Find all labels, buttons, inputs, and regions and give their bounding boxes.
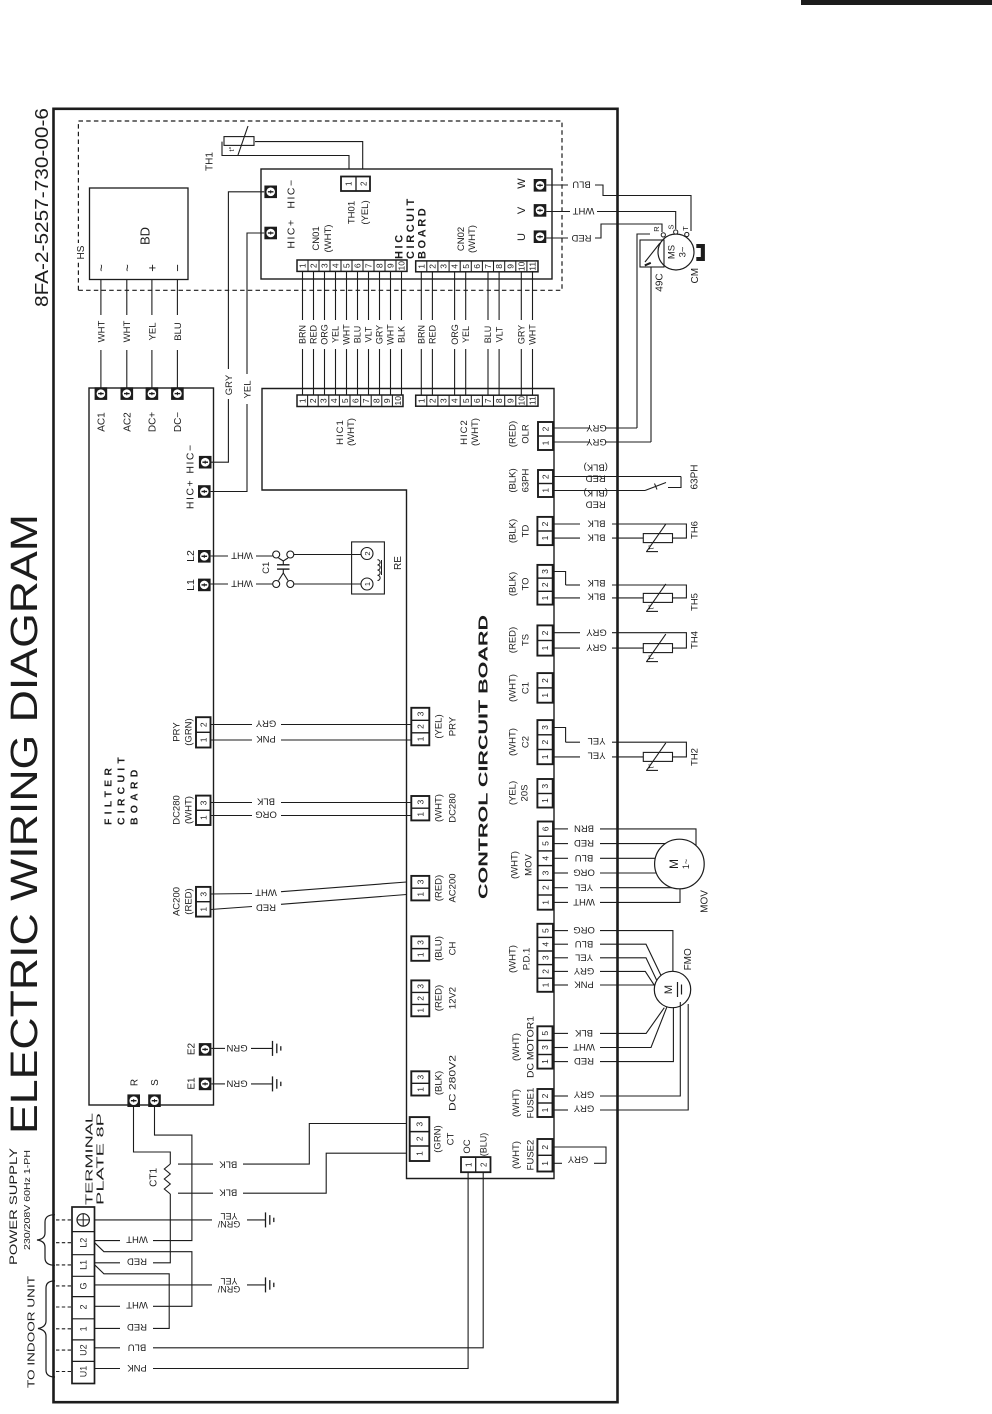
- svg-text:(RED): (RED): [433, 875, 444, 901]
- wire TH1 pin2: [255, 142, 363, 178]
- svg-text:ORG: ORG: [450, 324, 460, 345]
- wire MOV-5 RED: [554, 843, 568, 845]
- svg-text:6: 6: [472, 398, 482, 403]
- svg-text:2: 2: [540, 521, 550, 526]
- svg-text:1: 1: [541, 488, 551, 493]
- svg-text:BLK: BLK: [397, 326, 407, 343]
- terminal plate 8P box: [72, 1207, 95, 1384]
- connector DC MOTOR1 (WHT) 1-3-5: [537, 1026, 552, 1068]
- wire E1 GRN: [212, 1083, 226, 1085]
- thermistor TH4 with wires: [554, 632, 580, 634]
- svg-text:(BLK): (BLK): [433, 1071, 444, 1095]
- svg-text:4: 4: [329, 398, 339, 403]
- svg-text:BLK: BLK: [587, 590, 606, 601]
- connector AC200 (RED) filter: [196, 887, 211, 917]
- svg-text:1: 1: [345, 181, 354, 186]
- svg-text:6: 6: [350, 398, 360, 403]
- svg-text:YEL: YEL: [147, 323, 158, 341]
- svg-text:BRN: BRN: [574, 822, 594, 833]
- svg-text:E2: E2: [187, 1042, 198, 1055]
- wire DC280 ORG between boards: [211, 815, 253, 817]
- svg-text:(GRN): (GRN): [432, 1125, 443, 1152]
- ground E2: [272, 1041, 274, 1056]
- HS label: [73, 243, 88, 262]
- svg-text:(WHT): (WHT): [511, 1141, 522, 1169]
- svg-text:1: 1: [540, 900, 550, 905]
- svg-text:BLK: BLK: [256, 796, 275, 807]
- svg-text:S: S: [150, 1079, 161, 1086]
- svg-text:~: ~: [120, 264, 135, 272]
- svg-text:TH01: TH01: [346, 201, 357, 224]
- terminal E2: [199, 1043, 212, 1056]
- svg-text:PNK: PNK: [127, 1362, 147, 1373]
- svg-text:1: 1: [416, 264, 426, 269]
- svg-text:PRY: PRY: [171, 722, 182, 742]
- svg-text:P.D.1: P.D.1: [521, 948, 532, 971]
- svg-text:GRY: GRY: [375, 325, 385, 344]
- wire PRY GRY between boards: [211, 724, 253, 726]
- svg-text:RED: RED: [574, 837, 594, 848]
- ground E1: [272, 1076, 274, 1091]
- svg-text:8: 8: [375, 263, 385, 268]
- svg-text:L1: L1: [79, 1260, 89, 1270]
- svg-text:YEL: YEL: [588, 735, 606, 746]
- terminal AC1: [95, 387, 108, 400]
- compressor motor CM circle: [658, 234, 694, 270]
- pressure switch 63PH contact: [645, 483, 666, 491]
- thermistor TH2 with wires: [566, 741, 580, 743]
- svg-text:1: 1: [540, 798, 550, 803]
- connector OLR (RED) 1-2: [538, 422, 553, 450]
- connector CT (GRN): [410, 1117, 430, 1161]
- connector HIC2 pin strip 1-11: [416, 395, 538, 406]
- svg-text:GRY: GRY: [255, 718, 276, 729]
- wire CN01-6 BLU: [357, 349, 359, 395]
- wire TO-3 jog: [554, 572, 566, 586]
- fan motor FMO circle: [654, 971, 690, 1007]
- svg-text:2: 2: [540, 739, 550, 744]
- svg-text:+: +: [145, 264, 160, 272]
- svg-text:L2: L2: [185, 550, 197, 562]
- wire CN02-4 ORG: [454, 349, 456, 395]
- svg-text:GRY: GRY: [586, 422, 607, 433]
- terminal L1: [198, 579, 211, 592]
- connector CN02 pin strip 1-11: [416, 261, 538, 272]
- svg-text:3: 3: [415, 1075, 425, 1080]
- svg-text:1: 1: [540, 982, 550, 987]
- svg-text:63PH: 63PH: [690, 464, 701, 489]
- wire 49C to R: [637, 234, 650, 428]
- svg-text:t°: t°: [647, 604, 656, 609]
- svg-text:C2: C2: [520, 736, 531, 748]
- current transformer CT1 coil: [164, 1164, 170, 1194]
- svg-text:1: 1: [540, 754, 550, 759]
- connector TS (RED) 1-2: [537, 625, 552, 655]
- svg-text:CIRCUIT: CIRCUIT: [405, 196, 417, 259]
- svg-text:YEL: YEL: [575, 881, 593, 892]
- svg-text:2: 2: [415, 996, 425, 1001]
- svg-text:(YEL): (YEL): [433, 714, 444, 738]
- connector HIC1 pin strip 1-10: [297, 395, 403, 407]
- wire MOV-4 BLU: [554, 857, 568, 859]
- svg-text:GRY: GRY: [567, 1154, 588, 1165]
- wire DCM1-5 BLK: [554, 1032, 568, 1034]
- svg-text:9: 9: [382, 398, 392, 403]
- RE contact 2: [361, 548, 373, 560]
- svg-text:WHT: WHT: [231, 578, 253, 589]
- wire PRY PNK between boards: [211, 739, 253, 741]
- svg-text:7: 7: [483, 264, 493, 269]
- wire L2 jog to terminal 2 (WHT): [95, 1243, 192, 1307]
- wire CN01-4 YEL: [335, 349, 337, 395]
- svg-text:(RED): (RED): [507, 421, 518, 447]
- wire 63PH-2: [554, 476, 681, 478]
- svg-text:BLK: BLK: [587, 577, 606, 588]
- svg-text:3: 3: [540, 784, 550, 789]
- wire FUSE1-2 GRY: [554, 1095, 568, 1097]
- svg-text:1: 1: [540, 1161, 550, 1166]
- svg-text:−: −: [170, 264, 185, 272]
- wire CN01-5 WHT: [346, 349, 348, 395]
- svg-text:9: 9: [505, 264, 515, 269]
- svg-text:9: 9: [386, 263, 396, 268]
- wire W to compressor T (BLU): [546, 184, 568, 186]
- wire CN02-2 RED: [431, 349, 433, 395]
- svg-text:BLK: BLK: [574, 1027, 593, 1038]
- svg-text:2: 2: [540, 582, 550, 587]
- svg-text:8: 8: [494, 264, 504, 269]
- svg-text:G: G: [79, 1282, 89, 1289]
- svg-text:PLATE 8P: PLATE 8P: [96, 1112, 107, 1205]
- wire CN02-5 YEL: [465, 349, 467, 395]
- wire PD1-4 BLU: [554, 943, 568, 945]
- svg-text:4: 4: [540, 942, 550, 947]
- svg-text:TERMINAL: TERMINAL: [85, 1112, 96, 1205]
- wire CN01-7 VLT: [368, 349, 370, 395]
- svg-text:L2: L2: [79, 1238, 89, 1248]
- svg-text:7: 7: [361, 398, 371, 403]
- svg-text:2: 2: [540, 969, 550, 974]
- svg-text:HIC+: HIC+: [184, 479, 196, 509]
- wire PD1-1 PNK: [554, 984, 568, 986]
- terminal R: [127, 1094, 140, 1107]
- brace POWER SUPPLY: [37, 1215, 55, 1266]
- wire AC200 RED between boards: [211, 907, 253, 910]
- wire R to CT1 primary: [134, 1107, 171, 1164]
- svg-text:1: 1: [540, 1107, 550, 1112]
- svg-text:RE: RE: [393, 556, 404, 570]
- svg-text:YEL: YEL: [242, 381, 253, 399]
- connector CH (BLU): [411, 936, 429, 961]
- svg-text:OLR: OLR: [520, 424, 531, 444]
- svg-text:R: R: [652, 226, 661, 232]
- wire C1 to RE 2: [294, 554, 362, 556]
- svg-text:1: 1: [415, 952, 425, 957]
- svg-text:2: 2: [198, 722, 208, 727]
- svg-text:6: 6: [540, 826, 550, 831]
- HIC circuit board box: [261, 169, 552, 279]
- svg-text:(RED): (RED): [183, 888, 194, 914]
- svg-text:RED: RED: [127, 1256, 147, 1267]
- svg-text:YEL: YEL: [220, 1211, 237, 1221]
- svg-text:(WHT): (WHT): [511, 1089, 522, 1117]
- svg-text:3: 3: [415, 984, 425, 989]
- svg-text:(WHT): (WHT): [346, 418, 357, 446]
- svg-text:3: 3: [198, 892, 208, 897]
- svg-text:BLK: BLK: [587, 532, 606, 543]
- svg-text:3: 3: [415, 879, 425, 884]
- wire U to compressor R (RED): [546, 237, 568, 239]
- compressor terminal S: [674, 230, 678, 234]
- page header black bar: [801, 0, 992, 5]
- svg-text:3: 3: [540, 569, 550, 574]
- svg-text:C1: C1: [520, 682, 531, 694]
- svg-text:WHT: WHT: [573, 1041, 595, 1052]
- svg-text:ORG: ORG: [255, 809, 277, 820]
- svg-text:10: 10: [516, 396, 526, 406]
- svg-text:1: 1: [415, 1087, 425, 1092]
- svg-text:(WHT): (WHT): [507, 945, 518, 973]
- wire CN01-9 WHT: [390, 349, 392, 395]
- svg-text:t°: t°: [227, 146, 236, 151]
- svg-text:TH2: TH2: [689, 748, 700, 766]
- wire L1 WHT to C1: [211, 583, 228, 585]
- svg-text:GRY: GRY: [573, 1089, 594, 1100]
- svg-text:1: 1: [540, 535, 550, 540]
- svg-text:3: 3: [415, 799, 425, 804]
- svg-text:POWER SUPPLY: POWER SUPPLY: [8, 1147, 20, 1265]
- svg-text:E1: E1: [187, 1077, 198, 1090]
- svg-text:WHT: WHT: [528, 324, 538, 345]
- svg-text:RED: RED: [586, 473, 606, 484]
- svg-text:(YEL): (YEL): [360, 200, 371, 224]
- wire TH1 pin1: [222, 142, 349, 178]
- svg-text:1~: 1~: [681, 859, 691, 869]
- svg-text:ELECTRIC WIRING DIAGRAM: ELECTRIC WIRING DIAGRAM: [4, 514, 46, 1134]
- svg-text:CH: CH: [447, 942, 458, 956]
- svg-text:(WHT): (WHT): [507, 728, 518, 756]
- svg-text:4: 4: [450, 398, 460, 403]
- svg-text:1: 1: [416, 398, 426, 403]
- svg-text:(GRN): (GRN): [183, 718, 194, 745]
- svg-text:3: 3: [540, 1045, 550, 1050]
- svg-text:3: 3: [540, 870, 550, 875]
- svg-text:PNK: PNK: [574, 979, 594, 990]
- svg-text:M: M: [663, 985, 675, 994]
- svg-text:BRN: BRN: [417, 325, 427, 344]
- svg-text:BOARD: BOARD: [129, 766, 141, 826]
- thermistor TH6 with wires: [554, 523, 580, 525]
- svg-text:3: 3: [198, 800, 208, 805]
- svg-text:8: 8: [372, 398, 382, 403]
- svg-text:1: 1: [198, 737, 208, 742]
- svg-text:WHT: WHT: [126, 1233, 148, 1244]
- wire earth GRN/YEL to ground: [95, 1219, 212, 1221]
- svg-text:(BLK): (BLK): [507, 572, 518, 596]
- svg-text:HIC−: HIC−: [184, 443, 196, 473]
- svg-text:(BLK): (BLK): [584, 461, 608, 472]
- svg-text:2: 2: [79, 1304, 89, 1309]
- capacitor C1 contacts: [273, 551, 280, 558]
- wire CT1 primary to L1 (RED): [153, 1194, 170, 1263]
- wire OLR-2 GRY: [554, 427, 590, 429]
- svg-text:1: 1: [298, 263, 308, 268]
- svg-text:5: 5: [540, 1031, 550, 1036]
- svg-text:2: 2: [480, 1162, 489, 1167]
- wire C2-3 jog: [554, 728, 566, 743]
- terminal plate cell G: [72, 1275, 95, 1277]
- svg-text:8: 8: [494, 398, 504, 403]
- svg-text:R: R: [129, 1079, 140, 1086]
- svg-text:7: 7: [364, 263, 374, 268]
- connector TH01 (YEL): [341, 177, 370, 192]
- svg-text:C1: C1: [261, 562, 272, 574]
- svg-text:T: T: [681, 226, 690, 231]
- wire BD~ to AC1 (WHT): [100, 350, 102, 394]
- svg-text:1: 1: [363, 582, 372, 586]
- svg-text:6: 6: [353, 263, 363, 268]
- svg-text:BLK: BLK: [587, 518, 606, 529]
- svg-text:10: 10: [393, 396, 403, 406]
- svg-text:AC1: AC1: [97, 412, 108, 432]
- svg-text:MS: MS: [666, 245, 677, 259]
- thermistor TH1: [224, 137, 254, 146]
- svg-text:PNK: PNK: [256, 733, 276, 744]
- svg-text:M: M: [667, 859, 681, 869]
- svg-text:GRY: GRY: [586, 642, 607, 653]
- wire CN01-10 BLK: [401, 349, 403, 395]
- svg-text:RED: RED: [574, 1055, 594, 1066]
- svg-text:BD: BD: [138, 227, 153, 245]
- svg-text:MOV: MOV: [700, 890, 711, 913]
- svg-text:(RED): (RED): [433, 985, 444, 1011]
- svg-text:WHT: WHT: [255, 887, 277, 898]
- svg-text:U: U: [516, 233, 528, 241]
- svg-text:BOARD: BOARD: [417, 206, 429, 259]
- svg-text:1: 1: [198, 907, 208, 912]
- terminal AC2: [121, 387, 134, 400]
- svg-text:CT: CT: [445, 1132, 456, 1145]
- connector PRY (GRN) filter: [196, 717, 211, 747]
- svg-text:ORG: ORG: [320, 324, 330, 345]
- wire HIC+ YEL: [211, 404, 247, 492]
- svg-text:2: 2: [363, 551, 372, 555]
- svg-text:RED: RED: [428, 325, 438, 345]
- svg-text:GRY: GRY: [224, 374, 235, 395]
- terminal HIC- (HIC board): [264, 186, 277, 199]
- svg-text:S: S: [667, 224, 676, 229]
- wire CN02-7 BLU: [487, 349, 489, 395]
- wire L1 jog to terminal 1 (RED): [95, 1265, 170, 1329]
- capacitor C1 plates: [279, 558, 289, 561]
- svg-text:TS: TS: [520, 634, 531, 646]
- svg-text:WHT: WHT: [573, 896, 595, 907]
- terminal HIC+ (HIC board): [264, 227, 277, 240]
- svg-text:1: 1: [415, 812, 425, 817]
- svg-text:ORG: ORG: [573, 924, 595, 935]
- svg-text:TH4: TH4: [689, 631, 700, 649]
- svg-text:GRY: GRY: [586, 436, 607, 447]
- svg-text:RED: RED: [256, 902, 276, 913]
- svg-text:RED: RED: [571, 232, 591, 243]
- wire U2 BLU to OC2: [95, 1347, 120, 1349]
- svg-text:5: 5: [461, 398, 471, 403]
- svg-text:5: 5: [540, 841, 550, 846]
- svg-text:AC2: AC2: [122, 412, 133, 432]
- control circuit board outline: [262, 389, 554, 1179]
- wire CN01-1 BRN: [302, 349, 304, 395]
- svg-text:RED: RED: [127, 1321, 147, 1332]
- svg-text:ORG: ORG: [573, 867, 595, 878]
- svg-text:TH1: TH1: [205, 152, 216, 171]
- svg-text:1: 1: [198, 815, 208, 820]
- svg-text:2: 2: [541, 426, 551, 431]
- svg-text:230/208V 60Hz 1-PH: 230/208V 60Hz 1-PH: [23, 1150, 32, 1250]
- svg-text:BLU: BLU: [575, 938, 594, 949]
- svg-text:MOV: MOV: [523, 854, 534, 876]
- connector 20S (YEL) 1-3: [537, 779, 552, 808]
- RE coil: [378, 560, 381, 581]
- connector AC200 (RED) control: [411, 876, 429, 901]
- terminal plate cell 2: [72, 1296, 95, 1298]
- svg-text:1: 1: [541, 440, 551, 445]
- svg-text:1: 1: [540, 1059, 550, 1064]
- thermal protector 49C: [640, 240, 664, 267]
- terminal S: [148, 1094, 161, 1107]
- svg-text:WHT: WHT: [96, 320, 107, 342]
- svg-text:CN01: CN01: [311, 226, 322, 250]
- svg-text:2: 2: [309, 263, 319, 268]
- svg-text:5: 5: [342, 263, 352, 268]
- svg-text:AC200: AC200: [447, 873, 458, 902]
- svg-text:7: 7: [483, 398, 493, 403]
- svg-text:GRY: GRY: [586, 626, 607, 637]
- wire CT-3 BLK: [243, 1124, 407, 1165]
- svg-text:t°: t°: [647, 545, 656, 550]
- wire CN02-11 WHT: [532, 349, 534, 395]
- svg-text:3: 3: [439, 398, 449, 403]
- connector FUSE2 (WHT) 1-2: [537, 1139, 552, 1172]
- svg-text:GRY: GRY: [573, 965, 594, 976]
- wire MOV-6 BRN: [554, 828, 568, 830]
- svg-text:1: 1: [415, 1008, 425, 1013]
- wire CN02-1 BRN: [420, 349, 422, 395]
- svg-text:DC280: DC280: [447, 793, 458, 823]
- svg-text:5: 5: [540, 928, 550, 933]
- terminal plate cell L1: [72, 1254, 95, 1256]
- svg-text:2: 2: [415, 724, 425, 729]
- svg-text:DC+: DC+: [148, 412, 159, 432]
- svg-text:GRY: GRY: [517, 325, 527, 344]
- wire FUSE1-1 GRY: [554, 1109, 568, 1111]
- svg-text:t°: t°: [647, 655, 656, 660]
- svg-text:3~: 3~: [677, 246, 688, 257]
- RE contact 1: [361, 578, 373, 590]
- wire BD~ to AC2 (WHT): [126, 350, 128, 394]
- wire U1 PNK to OC1: [95, 1368, 120, 1370]
- svg-text:1: 1: [415, 736, 425, 741]
- svg-text:1: 1: [540, 595, 550, 600]
- svg-text:(BLK): (BLK): [507, 468, 518, 492]
- svg-text:3: 3: [439, 264, 449, 269]
- svg-text:DC−: DC−: [173, 412, 184, 432]
- svg-text:GRN: GRN: [226, 1077, 247, 1088]
- terminal U: [534, 230, 547, 243]
- svg-text:OC: OC: [462, 1139, 473, 1153]
- svg-text:VLT: VLT: [494, 326, 504, 342]
- svg-text:2: 2: [360, 181, 369, 186]
- wire BD+ to DC+ (YEL): [151, 350, 153, 394]
